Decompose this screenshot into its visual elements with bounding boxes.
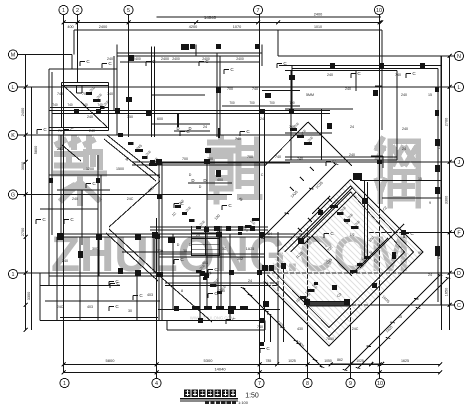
bottom segment dim line [64,364,441,366]
dim pair line 2 [122,251,192,253]
central D marks2 [174,126,210,131]
left dim tick [24,193,28,197]
svg-text:240: 240 [87,115,93,119]
diamond outer boundary [264,180,423,347]
svg-text:240: 240 [345,87,351,91]
marker C [109,304,119,311]
svg-text:1025: 1025 [356,359,364,363]
svg-text:5800: 5800 [106,358,116,363]
diag wall 2b [106,233,158,281]
vertical x80 lower [79,237,81,321]
left dim tick [24,235,28,239]
bottom dim tick [438,363,442,367]
bay diag b [308,122,352,166]
top-left step vertical [73,30,75,55]
mid wall y234 [57,233,310,235]
svg-text:J: J [458,160,461,166]
svg-text:740: 740 [97,103,103,107]
lower wall y284 [40,285,120,287]
svg-text:700: 700 [247,155,253,159]
svg-text:24C: 24C [127,197,134,201]
dim row texts y61 [133,57,244,61]
right dim tick [448,303,452,307]
svg-text:70: 70 [58,129,62,133]
svg-text:700: 700 [229,101,235,105]
marker C [36,217,46,224]
bottom dim tick [275,363,279,367]
marker C [222,203,232,210]
bottom dim tick [62,363,66,367]
room A top wall2 [62,85,109,87]
central wall x207 [206,162,208,310]
bubble F right [454,228,463,237]
svg-text:10: 10 [377,381,383,387]
vertical x200 lower [199,273,201,321]
upper room top wall [117,52,262,54]
watermark glyph 1 [56,138,104,203]
axis 9 vertical [350,308,352,378]
diag lower right [162,278,212,322]
dim pair line 6 [50,107,108,109]
diamond dim chain bl-1 [248,295,317,361]
left outer wall inner [51,72,53,235]
stair wall x218 [217,226,219,310]
svg-text:D: D [203,178,206,183]
svg-text:700: 700 [207,157,213,161]
bl vertical x40 [39,273,41,321]
svg-text:1:100: 1:100 [238,400,249,405]
grid line N [278,55,455,57]
svg-text:1200: 1200 [86,167,94,171]
room A right wall [108,83,110,131]
svg-text:2400: 2400 [161,57,169,61]
diag wall 1b [104,139,156,181]
bubble axis 10 top [374,5,383,14]
svg-text:350: 350 [127,115,133,119]
marker C [102,61,112,68]
svg-text:1050: 1050 [324,359,332,363]
diamond bay bar bottom [306,305,350,307]
bl vertical x265b [264,321,266,331]
svg-text:8: 8 [181,289,183,293]
lower wall y301 [45,300,160,302]
svg-text:1070: 1070 [233,25,241,29]
marker C [109,279,119,286]
bl vertical x137 [136,273,138,321]
grid line F [368,232,455,234]
wall y198 right [382,197,441,199]
svg-text:240: 240 [89,129,95,133]
annotation cluster 1 [128,142,159,166]
svg-text:5: 5 [127,8,130,14]
dim row texts y95l [52,103,103,107]
svg-text:240: 240 [401,93,407,97]
svg-text:785: 785 [266,359,272,363]
svg-text:740: 740 [297,157,303,161]
room A bottom wall2 [49,130,109,132]
diag wall 2a [109,229,162,278]
bottom dim tick [329,363,333,367]
vertical x82 mid [81,190,83,245]
svg-text:700: 700 [289,101,295,105]
diamond wall inner [272,192,405,328]
diamond dim chain bl-2 [241,288,324,368]
ur wall y109 [285,108,353,110]
diamond top room left [312,196,330,214]
top dim tick [127,21,131,25]
sub dim ticks y364 [349,362,385,366]
diamond interior vertical [364,180,366,258]
bl vertical x154 [153,237,155,273]
diamond top wall corner v [382,156,384,168]
ur wall y157 a [285,156,397,158]
svg-text:M: M [11,53,16,59]
bm wall y2855 [165,285,277,287]
vertical x114 [113,56,115,111]
diag small upper [62,145,81,161]
marker C [208,267,218,274]
bubble C right [454,300,463,309]
right upper wall y68 [292,68,438,70]
svg-text:240: 240 [402,127,408,131]
svg-text:1625: 1625 [401,359,409,363]
vertical x196 [195,45,197,57]
svg-text:5800: 5800 [34,146,38,154]
ur vertical x3215 [321,109,323,160]
right dim tick [448,160,452,164]
bubble D left [8,269,17,278]
annotation cluster 9 [300,282,318,299]
svg-text:740: 740 [57,92,63,96]
sub dim line y364 [330,363,382,365]
ur wall y133 [285,132,332,134]
bubble axis 2 top [73,5,82,14]
bottom dim tick2 [155,371,159,375]
diamond dim chain br-1 [343,275,442,371]
marker C [133,293,143,300]
svg-text:24C: 24C [57,305,64,309]
axis 4 vertical [156,218,158,378]
vertical x265 stair [264,111,266,343]
marker C [224,67,234,74]
bottom dim tick [306,363,310,367]
left dim line a [25,55,27,331]
svg-text:N: N [457,54,461,60]
svg-text:2700: 2700 [445,118,449,126]
svg-text:24: 24 [196,233,200,237]
svg-text:24: 24 [268,232,272,236]
svg-text:15: 15 [418,177,422,181]
bubble G left [8,190,17,199]
top dim tick [256,21,260,25]
svg-text:C: C [457,303,461,309]
svg-text:L: L [458,85,461,91]
svg-text:24: 24 [350,125,354,129]
svg-text:1: 1 [63,381,66,387]
svg-text:700: 700 [249,101,255,105]
svg-text:24: 24 [203,125,207,129]
marker C [277,61,287,68]
watermark glyph 2 [209,138,259,202]
svg-text:300: 300 [92,247,98,251]
svg-text:24D: 24D [57,147,64,151]
grid line J [132,161,455,163]
svg-text:7: 7 [258,381,261,387]
left dim tick [24,328,28,332]
svg-text:D: D [457,271,461,277]
central wall x162 [161,163,163,321]
svg-text:10: 10 [376,8,382,14]
svg-text:24: 24 [402,147,406,151]
svg-text:302: 302 [237,257,243,261]
marker C [64,127,74,134]
ur wall y70 [285,69,397,71]
svg-text:1A25: 1A25 [246,247,254,251]
ur wall y160 b [285,159,397,161]
bl vertical x167b [166,321,168,331]
dim pair line 5 [222,105,300,107]
marker C [260,346,270,353]
right dim tick [448,85,452,89]
vertical x117 [116,45,118,136]
axis 5 vertical [128,15,130,138]
left dim tick [24,85,28,89]
svg-text:15: 15 [398,315,402,319]
vertical x382 upper [381,30,383,130]
grid line G [18,194,233,196]
bubble axis 9 bottom [346,378,355,387]
staircase [192,226,220,256]
room A top wall [62,82,109,84]
room A bottom wall [49,127,109,129]
annotation cluster 7 [350,250,375,273]
bubble axis 5 top [124,5,133,14]
wall x217 outer [216,53,218,137]
watermark glyph 3 [377,139,418,206]
diag wall 1a [107,135,160,178]
diamond bay bar fill [306,302,350,306]
right dim tick [448,231,452,235]
bubble axis 1 bottom [60,378,69,387]
bottom dim tick2 [62,371,66,375]
bottom dim tick [155,363,159,367]
svg-text:D: D [191,178,194,183]
svg-text:430: 430 [297,327,303,331]
title subline [205,401,236,405]
diamond interior diag wall b [304,192,356,244]
grid line L [18,86,455,88]
marker C [80,59,90,66]
svg-text:4X0: 4X0 [217,178,223,182]
svg-text:1/2: 1/2 [350,233,355,237]
axis 7 vertical [259,15,261,379]
wall y190 left [57,189,110,191]
svg-text:740: 740 [257,325,263,329]
grid line D [18,272,455,274]
bubble axis 7 top [253,5,262,14]
bubble L left [8,82,17,91]
right dim tick [448,54,452,58]
central D marks [188,178,232,183]
wall y180 right [360,180,441,182]
title underline thick [180,398,238,400]
svg-text:1:50: 1:50 [245,393,259,400]
column blobs [49,44,440,346]
left dim tick [24,133,28,137]
svg-text:24C: 24C [352,327,359,331]
mid wall y257 [159,256,265,258]
svg-text:740: 740 [235,137,241,141]
diamond interior diag wall c [360,224,404,268]
svg-text:D: D [189,173,192,177]
upper room top wall inner [117,55,260,57]
right boundary wall [440,56,442,305]
bl vertical x57 [56,237,58,321]
svg-text:403: 403 [147,293,153,297]
right dim line b [449,56,451,330]
ul vertical x1515 [151,47,153,138]
top-left step horizontal [49,68,117,70]
svg-text:3000: 3000 [21,162,25,170]
annotation cluster 3 [196,264,227,294]
marker C [226,317,236,324]
vertical x278 lower [277,232,279,365]
bottom dim tick2 [378,371,382,375]
lower wall y317 [60,317,158,319]
svg-text:95: 95 [418,251,422,255]
svg-text:9: 9 [429,201,431,205]
svg-text:740: 740 [52,103,58,107]
dim pair line 3 [152,123,210,125]
marker C [324,231,334,238]
svg-text:240: 240 [327,73,333,77]
marker C [174,257,184,264]
ul vertical x1545 [154,47,156,138]
dim row texts y105 [229,101,295,105]
right upper wall y65 [279,65,441,67]
room A notch [76,86,78,94]
svg-text:1500: 1500 [116,167,124,171]
bottom dim tick [369,363,373,367]
top dim tick [62,21,66,25]
svg-text:D: D [177,243,180,247]
svg-text:K: K [11,133,15,139]
svg-text:L: L [12,85,15,91]
bay diag a [265,122,309,166]
svg-text:1650: 1650 [445,288,449,296]
dim pair line 1 [162,162,290,164]
annotation cluster 8 [86,86,110,109]
marker C [326,159,336,166]
right dim tick [448,271,452,275]
diamond inner cross a [312,236,352,276]
ul wall y95 [152,94,206,96]
svg-text:D: D [199,185,202,189]
diamond wall outer [268,186,414,337]
bubble J right [454,157,463,166]
marker C [406,71,416,78]
svg-text:240: 240 [219,289,225,293]
svg-text:2: 2 [76,8,79,14]
svg-text:3C: 3C [222,247,227,251]
bm tick table [192,306,248,309]
svg-text:C: C [261,173,264,177]
diag tick marks [290,167,332,232]
diamond inner cross b [352,238,388,274]
svg-text:740: 740 [107,92,113,96]
svg-text:D: D [189,243,192,247]
lower wall y309 [158,309,280,311]
bottom dim tick [258,363,262,367]
left dim line b [31,87,33,330]
bubble axis 7 bottom [255,378,264,387]
top dim tick [379,21,383,25]
top boundary wall [74,29,382,31]
svg-text:3300: 3300 [445,196,449,204]
wall y175 left [49,174,160,176]
marker C [208,291,218,298]
svg-text:400: 400 [67,25,73,29]
bubble axis 10 bottom [375,378,384,387]
mid wall y237 [57,236,310,238]
diamond dim chain br-2 [356,278,450,369]
top-left step vertical b [71,55,73,70]
svg-text:14040: 14040 [214,367,226,372]
marker C [110,281,120,288]
marker C [351,71,361,78]
axis 2 vertical [77,15,79,83]
diag mid [109,181,160,227]
svg-text:5300: 5300 [204,358,214,363]
svg-text:240: 240 [72,197,78,201]
bm wall y283 [165,282,277,284]
svg-text:1025: 1025 [288,359,296,363]
vertical x61 mid [60,135,62,237]
annotation cluster 6 [238,218,259,235]
svg-text:2400: 2400 [21,108,25,116]
svg-text:600: 600 [157,117,163,121]
svg-text:2400: 2400 [172,57,180,61]
small dim texts [57,57,432,341]
vertical x98 lower [97,155,99,321]
left dim tick [24,271,28,275]
bl wall y330 [167,329,265,331]
vertical x270 stair [270,316,272,342]
bubble axis 1 top [59,5,68,14]
diamond interior vertical2 [367,182,369,256]
svg-text:7850: 7850 [326,337,334,341]
diamond top wall corner h [371,155,383,157]
top dim tick [76,21,80,25]
left dim tick [24,160,28,164]
svg-text:15: 15 [428,93,432,97]
marker C [64,217,74,224]
annotation cluster 5 [330,199,361,229]
svg-text:8: 8 [306,381,309,387]
ur vertical x291 [290,70,292,160]
bubble N right [454,51,463,60]
svg-text:862: 862 [337,358,343,362]
right boundary wall inner [437,69,439,303]
top dim tick [378,21,382,25]
axis 1 vertical [63,15,65,373]
wall y90 mid [262,90,300,92]
svg-text:740: 740 [395,73,401,77]
marker C [174,201,184,208]
annotation cluster 2 [175,199,206,229]
svg-text:740: 740 [82,103,88,107]
title text [184,390,236,397]
